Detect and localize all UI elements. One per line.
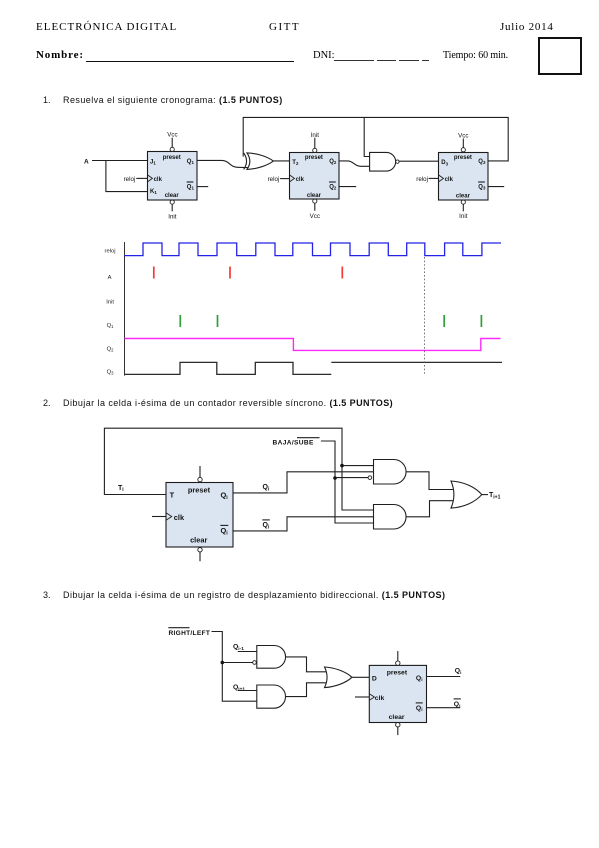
wire reloj FF2 xyxy=(280,178,289,180)
header course title xyxy=(36,21,177,33)
flip-flop FF2 Qbar overline xyxy=(329,181,336,183)
name field label xyxy=(36,49,84,61)
flip-flop FF5 clk triangle xyxy=(369,694,374,701)
svg-text:Vcc: Vcc xyxy=(310,213,320,220)
and gate B1 xyxy=(257,646,286,669)
flip-flop FF3 Qbar overline xyxy=(478,181,485,183)
wire Q1 to XOR input xyxy=(197,160,250,167)
svg-text:clear: clear xyxy=(456,193,471,199)
question 1 number xyxy=(43,95,51,105)
FF1 preset bubble xyxy=(170,147,174,151)
svg-text:Ti+1: Ti+1 xyxy=(489,492,501,500)
nand gate U2 body xyxy=(370,152,396,171)
wire XOR out to T2 xyxy=(273,160,289,162)
svg-text:Vcc: Vcc xyxy=(167,131,177,138)
svg-text:reloj: reloj xyxy=(124,176,136,183)
FF5 clear bubble xyxy=(396,723,400,727)
and gate A2 xyxy=(374,505,407,530)
flip-flop FF3 clk triangle xyxy=(439,175,444,182)
and gate B2 xyxy=(257,685,286,708)
junction dot RIGHT/LEFT xyxy=(221,661,225,665)
signal Q2 waveform xyxy=(125,339,501,351)
wire clk input FF5 xyxy=(355,696,369,698)
header date xyxy=(500,21,554,33)
flip-flop FF4 Qbar overline xyxy=(220,524,228,526)
wire Init stub FF2 xyxy=(314,138,316,149)
signal Q1 tick 4 xyxy=(480,315,482,327)
signal Q3 answer segment xyxy=(331,361,502,363)
wire feedback to AND A1 input 1 xyxy=(342,465,374,467)
flip-flop FF1 labels xyxy=(150,155,194,199)
FF1 clear bubble xyxy=(170,200,174,204)
wire branch top loop to NAND U2 top input xyxy=(364,117,369,156)
svg-text:Q3: Q3 xyxy=(478,184,486,190)
signal A tick 1 xyxy=(153,267,155,279)
svg-text:A: A xyxy=(108,275,112,281)
wire A2 out to OR O1 xyxy=(406,501,454,517)
name underline xyxy=(86,61,294,62)
junction dot BAJA/SUBE xyxy=(333,476,337,480)
header degree xyxy=(269,21,300,33)
svg-text:reloj: reloj xyxy=(416,176,428,183)
wire B1 out to OR O2 xyxy=(286,657,328,672)
svg-text:Qi-1: Qi-1 xyxy=(233,644,244,652)
svg-text:T2: T2 xyxy=(292,160,299,166)
svg-text:clear: clear xyxy=(389,714,405,721)
svg-text:Q1: Q1 xyxy=(187,159,195,165)
svg-text:Q2: Q2 xyxy=(107,346,115,352)
svg-text:preset: preset xyxy=(387,670,408,677)
and gate A1 xyxy=(374,460,407,485)
inverter bubble on AND B1 input xyxy=(253,661,257,665)
svg-text:Q1: Q1 xyxy=(187,184,195,190)
wire Vcc stub FF2 xyxy=(314,203,316,211)
wire Ti feedback loop xyxy=(104,428,373,510)
xor gate U1 rear arc xyxy=(244,153,247,170)
junction dot feedback/A1 xyxy=(340,464,344,468)
wire Q2bar stub xyxy=(339,186,356,188)
wire O2 out to D input xyxy=(352,676,369,678)
svg-text:Init: Init xyxy=(168,214,177,221)
wire Vcc stub FF1 xyxy=(171,138,173,148)
FF4 preset stub xyxy=(199,466,201,477)
svg-text:A: A xyxy=(84,158,89,165)
question 2 number xyxy=(43,398,51,408)
svg-text:clk: clk xyxy=(174,513,185,522)
wire reloj FF1 xyxy=(136,177,147,179)
net RIGHT/LEFT overline xyxy=(168,627,189,629)
signal reloj clock waveform xyxy=(124,243,501,256)
wire reloj FF3 xyxy=(429,177,439,179)
FF4 preset bubble xyxy=(198,477,202,481)
wire RIGHT/LEFT down to AND B2 xyxy=(212,632,257,702)
flip-flop FF2 (T) box xyxy=(290,153,340,200)
wire Qibar to AND A2 input 2 xyxy=(233,517,374,531)
flip-flop FF2 labels xyxy=(292,155,337,199)
wire Init stub FF1 xyxy=(171,204,173,211)
timing labels column xyxy=(105,248,116,375)
svg-text:clk: clk xyxy=(375,695,385,702)
wire Q3bar stub xyxy=(488,186,504,188)
flip-flop FF1 clk triangle xyxy=(148,175,153,182)
svg-text:Q1: Q1 xyxy=(107,323,115,329)
xor gate U1 body xyxy=(247,153,273,170)
svg-text:clear: clear xyxy=(165,193,180,199)
wire NAND out to D3 xyxy=(399,160,438,162)
flip-flop FF4 labels xyxy=(170,485,229,544)
svg-text:Vcc: Vcc xyxy=(458,132,468,139)
wire clk input FF4 xyxy=(152,516,166,518)
FF2 clear bubble xyxy=(313,199,317,203)
FF2 preset bubble xyxy=(313,148,317,152)
wire B2 out to OR O2 xyxy=(286,683,328,697)
inverter bubble on AND A1 input xyxy=(368,476,372,480)
svg-text:K1: K1 xyxy=(150,189,157,195)
svg-text:Ti: Ti xyxy=(118,485,124,493)
flip-flop FF4 clk triangle xyxy=(166,513,172,520)
flip-flop FF3 (D) box xyxy=(439,153,489,201)
FF4 clear bubble xyxy=(198,548,202,552)
flip-flop FF1 (JK) box xyxy=(148,152,198,201)
net BAJA/SUBE overline xyxy=(297,437,320,439)
flip-flop FF5 (D) box xyxy=(369,665,426,722)
grade box xyxy=(538,37,582,75)
flip-flop FF1 Qbar overline xyxy=(187,181,194,183)
signal A tick 3 xyxy=(341,267,343,279)
svg-text:Init: Init xyxy=(106,299,114,305)
flip-flop FF5 Qbar overline xyxy=(416,702,423,704)
wire Q1bar stub xyxy=(197,186,208,188)
cursor dotted line xyxy=(424,257,426,375)
FF5 clear stub xyxy=(397,727,399,735)
signal Q1 tick 1 xyxy=(179,315,181,327)
FF5 preset bubble xyxy=(396,661,400,665)
signal Q1 tick 3 xyxy=(443,315,445,327)
wire Vcc stub FF3 xyxy=(462,139,464,148)
signal A tick 2 xyxy=(229,267,231,279)
svg-text:D: D xyxy=(372,676,377,683)
svg-text:preset: preset xyxy=(454,155,472,161)
svg-text:Qi: Qi xyxy=(263,522,270,530)
svg-text:Qi: Qi xyxy=(263,484,270,492)
svg-text:Q3: Q3 xyxy=(107,369,115,375)
question 3 text xyxy=(63,590,445,600)
wire Qi-1 input xyxy=(238,651,257,653)
svg-text:preset: preset xyxy=(188,485,211,494)
signal Q1 tick 2 xyxy=(217,315,219,327)
wire A branch to K1 xyxy=(106,161,148,192)
svg-text:Q2: Q2 xyxy=(329,184,337,190)
svg-text:Q2: Q2 xyxy=(329,159,337,165)
node A input wire xyxy=(92,160,148,162)
svg-text:reloj: reloj xyxy=(105,248,116,254)
wire Qi output FF5 xyxy=(427,676,461,678)
svg-text:preset: preset xyxy=(305,155,323,161)
svg-text:Init: Init xyxy=(459,213,468,220)
svg-text:clk: clk xyxy=(445,177,454,183)
wire A1 out to OR O1 xyxy=(406,472,454,490)
or gate O2 xyxy=(325,667,352,688)
svg-text:Qi: Qi xyxy=(455,668,462,676)
time label xyxy=(443,50,508,61)
flip-flop FF4 (T) box xyxy=(166,483,233,548)
svg-text:reloj: reloj xyxy=(268,176,280,183)
nand gate U2 bubble xyxy=(396,160,399,163)
question 3 number xyxy=(43,590,51,600)
svg-text:clear: clear xyxy=(190,535,207,544)
DNI label xyxy=(313,50,335,61)
svg-text:clear: clear xyxy=(307,193,322,199)
svg-text:clk: clk xyxy=(154,177,163,183)
svg-text:BAJA/SUBE: BAJA/SUBE xyxy=(273,440,315,447)
wire Qi+1 input xyxy=(238,690,257,692)
svg-text:J1: J1 xyxy=(150,159,156,165)
wire Qibar output FF5 xyxy=(427,707,461,709)
svg-text:clk: clk xyxy=(296,177,305,183)
question 1 text xyxy=(63,95,283,105)
timing diagram axis xyxy=(124,242,126,376)
FF5 preset stub xyxy=(397,651,399,661)
DNI dashed line xyxy=(334,60,374,61)
flip-flop FF5 labels xyxy=(372,670,423,722)
wire Init stub FF3 xyxy=(462,204,464,211)
node Qibar output overline xyxy=(454,698,461,700)
svg-text:RIGHT/LEFT: RIGHT/LEFT xyxy=(169,630,211,637)
wire BAJA/SUBE to A1 bubble xyxy=(335,477,368,479)
FF3 preset bubble xyxy=(461,148,465,152)
signal Q3 waveform xyxy=(125,362,332,374)
or gate O1 xyxy=(451,481,482,508)
wire O1 output xyxy=(482,494,488,496)
svg-text:D3: D3 xyxy=(441,160,448,166)
FF4 clear stub xyxy=(199,552,201,561)
node Qibar overline xyxy=(262,519,270,521)
question 2 text xyxy=(63,398,393,408)
wire Q2 to NAND input xyxy=(339,161,370,166)
FF3 clear bubble xyxy=(461,200,465,204)
svg-text:T: T xyxy=(170,490,175,499)
wire Qi to AND A1 input 2 xyxy=(233,472,374,493)
wire BAJA/SUBE to AND gates xyxy=(321,441,374,523)
flip-flop FF2 clk triangle xyxy=(290,175,295,182)
flip-flop FF3 labels xyxy=(441,155,486,199)
svg-text:preset: preset xyxy=(163,155,181,161)
svg-text:Q3: Q3 xyxy=(478,159,486,165)
wire junction to B1 bubble xyxy=(222,662,252,664)
wire feedback Q3 to XOR (top loop) xyxy=(243,117,508,160)
